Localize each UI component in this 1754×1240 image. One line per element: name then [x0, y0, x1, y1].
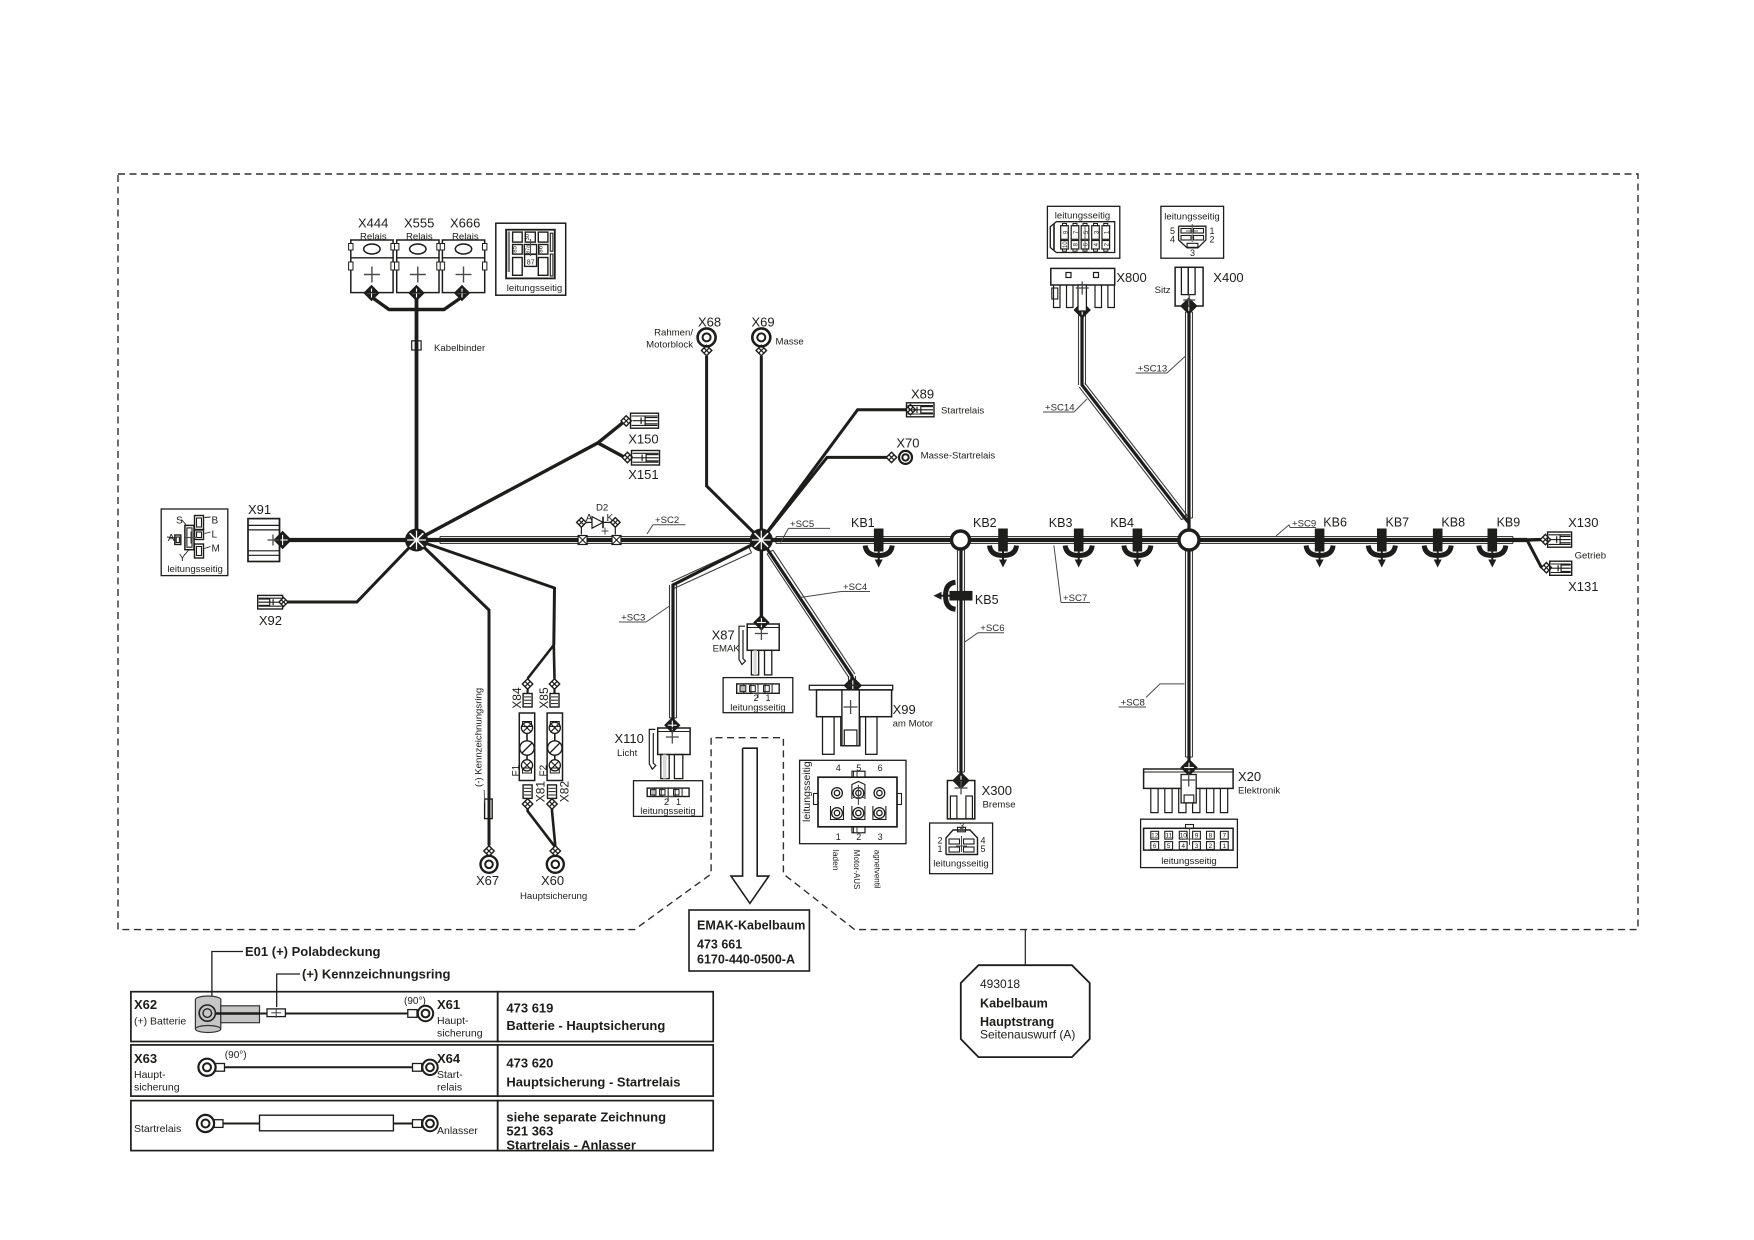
svg-text:5: 5: [1167, 843, 1171, 850]
svg-text:X110: X110: [615, 731, 644, 746]
svg-text:Licht: Licht: [617, 748, 638, 759]
svg-text:10: 10: [1063, 241, 1069, 248]
svg-text:am Motor: am Motor: [893, 719, 934, 730]
svg-text:KB9: KB9: [1497, 516, 1521, 530]
svg-text:9: 9: [1195, 833, 1199, 840]
svg-text:X87: X87: [712, 628, 735, 643]
svg-text:8: 8: [1209, 833, 1213, 840]
svg-text:Haupt-: Haupt-: [134, 1069, 166, 1081]
svg-text:leitungsseitig: leitungsseitig: [1164, 212, 1219, 223]
svg-text:(+) Batterie: (+) Batterie: [134, 1016, 186, 1028]
svg-text:X150: X150: [628, 432, 658, 447]
svg-text:X444: X444: [358, 216, 388, 231]
svg-text:Sitz: Sitz: [1155, 285, 1171, 296]
svg-text:siehe separate Zeichnung: siehe separate Zeichnung: [506, 1110, 666, 1125]
svg-text:Rahmen/: Rahmen/: [654, 328, 693, 339]
svg-text:leitungsseitig: leitungsseitig: [730, 703, 785, 714]
svg-text:Hauptsicherung - Startrelais: Hauptsicherung - Startrelais: [506, 1075, 680, 1090]
svg-text:1: 1: [1222, 843, 1226, 850]
svg-text:Kabelbaum: Kabelbaum: [980, 997, 1048, 1011]
svg-text:Haupt-: Haupt-: [437, 1015, 469, 1027]
svg-text:X555: X555: [404, 216, 434, 231]
svg-text:sicherung: sicherung: [437, 1028, 483, 1040]
svg-text:Masse: Masse: [776, 337, 804, 348]
svg-text:X60: X60: [541, 873, 564, 888]
svg-text:KB2: KB2: [973, 516, 997, 530]
svg-text:X61: X61: [437, 997, 460, 1012]
svg-text:493018: 493018: [980, 977, 1020, 991]
svg-text:Kabelbinder: Kabelbinder: [434, 343, 486, 354]
svg-text:K: K: [607, 513, 614, 524]
svg-text:4: 4: [1170, 235, 1175, 245]
svg-text:X130: X130: [1568, 515, 1598, 530]
svg-text:laden: laden: [831, 850, 841, 871]
svg-text:12: 12: [1151, 833, 1159, 840]
svg-text:Motorblock: Motorblock: [646, 340, 693, 351]
svg-text:EMAK: EMAK: [713, 644, 741, 655]
svg-text:relais: relais: [437, 1082, 462, 1094]
svg-text:X64: X64: [437, 1051, 461, 1066]
svg-text:M: M: [212, 544, 220, 555]
svg-text:X131: X131: [1568, 579, 1598, 594]
svg-text:X84: X84: [510, 687, 524, 709]
svg-text:KB3: KB3: [1049, 516, 1073, 530]
svg-text:EMAK-Kabelbaum: EMAK-Kabelbaum: [697, 919, 805, 933]
svg-text:Hauptsicherung: Hauptsicherung: [520, 891, 587, 902]
svg-text:L: L: [212, 529, 218, 540]
svg-text:X70: X70: [896, 436, 919, 451]
svg-text:87: 87: [527, 259, 535, 266]
svg-text:Motor-AUS: Motor-AUS: [852, 850, 861, 890]
svg-text:Start-: Start-: [437, 1069, 463, 1081]
svg-text:3: 3: [959, 821, 964, 831]
svg-text:X81: X81: [534, 781, 548, 803]
svg-text:6: 6: [1153, 843, 1157, 850]
svg-text:X800: X800: [1116, 270, 1146, 285]
svg-text:X151: X151: [628, 467, 658, 482]
svg-text:(+) Kennzeichnungsring: (+) Kennzeichnungsring: [302, 967, 450, 982]
svg-text:KB5: KB5: [975, 593, 999, 607]
svg-text:leitungsseitig: leitungsseitig: [801, 761, 813, 822]
svg-text:3: 3: [878, 832, 883, 842]
svg-text:4: 4: [1181, 843, 1185, 850]
svg-text:6170-440-0500-A: 6170-440-0500-A: [697, 953, 795, 967]
svg-text:4: 4: [836, 763, 841, 773]
svg-text:473 619: 473 619: [506, 1001, 553, 1016]
svg-text:521 363: 521 363: [506, 1124, 553, 1139]
svg-text:KB4: KB4: [1110, 516, 1134, 530]
svg-text:Relais: Relais: [360, 232, 387, 243]
svg-text:D2: D2: [596, 503, 608, 514]
svg-text:X85: X85: [537, 687, 551, 709]
svg-text:85: 85: [512, 245, 518, 252]
svg-text:KB6: KB6: [1323, 516, 1347, 530]
svg-text:X91: X91: [248, 502, 271, 517]
svg-text:(-) Kennzeichnungsring: (-) Kennzeichnungsring: [474, 688, 485, 787]
svg-text:5: 5: [981, 844, 986, 854]
svg-text:X69: X69: [752, 315, 775, 330]
svg-text:Getrieb: Getrieb: [1575, 551, 1606, 562]
svg-text:leitungsseitig: leitungsseitig: [640, 806, 695, 817]
svg-text:sicherung: sicherung: [134, 1082, 180, 1094]
svg-text:3: 3: [1195, 843, 1199, 850]
svg-text:leitungsseitig: leitungsseitig: [1055, 211, 1110, 222]
svg-text:3: 3: [1190, 248, 1195, 258]
svg-text:473 620: 473 620: [506, 1056, 553, 1071]
svg-text:X82: X82: [558, 781, 572, 803]
svg-text:F2: F2: [539, 764, 550, 776]
svg-text:A: A: [586, 513, 593, 524]
svg-text:Relais: Relais: [406, 232, 433, 243]
svg-text:Anlasser: Anlasser: [437, 1125, 478, 1137]
svg-text:86: 86: [539, 245, 545, 252]
svg-text:KB7: KB7: [1386, 516, 1410, 530]
svg-text:KB8: KB8: [1441, 516, 1465, 530]
svg-text:1: 1: [836, 832, 841, 842]
svg-text:X666: X666: [450, 216, 480, 231]
svg-text:Startrelais: Startrelais: [134, 1123, 181, 1135]
svg-text:agnetventil: agnetventil: [873, 850, 882, 889]
svg-text:X68: X68: [698, 315, 721, 330]
svg-text:leitungsseitig: leitungsseitig: [167, 564, 222, 575]
svg-text:2: 2: [753, 693, 758, 703]
svg-text:X300: X300: [982, 783, 1012, 798]
svg-text:B: B: [212, 516, 219, 527]
svg-text:F1: F1: [511, 764, 522, 776]
svg-text:X62: X62: [134, 997, 157, 1012]
svg-text:X89: X89: [911, 387, 934, 402]
svg-text:KB1: KB1: [851, 516, 875, 530]
svg-text:2: 2: [1210, 235, 1215, 245]
svg-text:X67: X67: [476, 873, 499, 888]
svg-text:1: 1: [937, 844, 942, 854]
svg-text:Startrelais - Anlasser: Startrelais - Anlasser: [506, 1138, 636, 1153]
svg-text:(90°): (90°): [225, 1050, 247, 1061]
svg-text:(90°): (90°): [404, 996, 426, 1007]
svg-text:7: 7: [1222, 833, 1226, 840]
svg-text:473 661: 473 661: [697, 938, 742, 952]
svg-text:leitungsseitig: leitungsseitig: [933, 859, 988, 870]
svg-text:leitungsseitig: leitungsseitig: [1161, 856, 1216, 867]
svg-text:6: 6: [878, 763, 883, 773]
svg-text:S: S: [176, 516, 183, 527]
svg-text:Relais: Relais: [452, 232, 479, 243]
svg-text:5: 5: [856, 763, 861, 773]
svg-text:2: 2: [856, 832, 861, 842]
svg-text:X20: X20: [1238, 769, 1261, 784]
svg-text:Batterie - Hauptsicherung: Batterie - Hauptsicherung: [506, 1018, 665, 1033]
svg-text:A: A: [168, 533, 175, 544]
svg-text:Startrelais: Startrelais: [941, 406, 984, 417]
svg-text:E01 (+) Polabdeckung: E01 (+) Polabdeckung: [245, 944, 381, 959]
svg-text:X99: X99: [893, 702, 916, 717]
svg-text:X63: X63: [134, 1051, 157, 1066]
svg-text:Bremse: Bremse: [983, 800, 1016, 811]
svg-text:11: 11: [1165, 833, 1172, 840]
svg-text:leitungsseitig: leitungsseitig: [507, 283, 562, 294]
svg-text:2: 2: [1209, 843, 1213, 850]
svg-text:X92: X92: [259, 613, 282, 628]
svg-text:Elektronik: Elektronik: [1238, 786, 1280, 797]
svg-text:X400: X400: [1213, 270, 1243, 285]
svg-text:Seitenauswurf (A): Seitenauswurf (A): [980, 1028, 1075, 1042]
svg-text:1: 1: [765, 693, 770, 703]
svg-text:Masse-Startrelais: Masse-Startrelais: [921, 451, 996, 462]
